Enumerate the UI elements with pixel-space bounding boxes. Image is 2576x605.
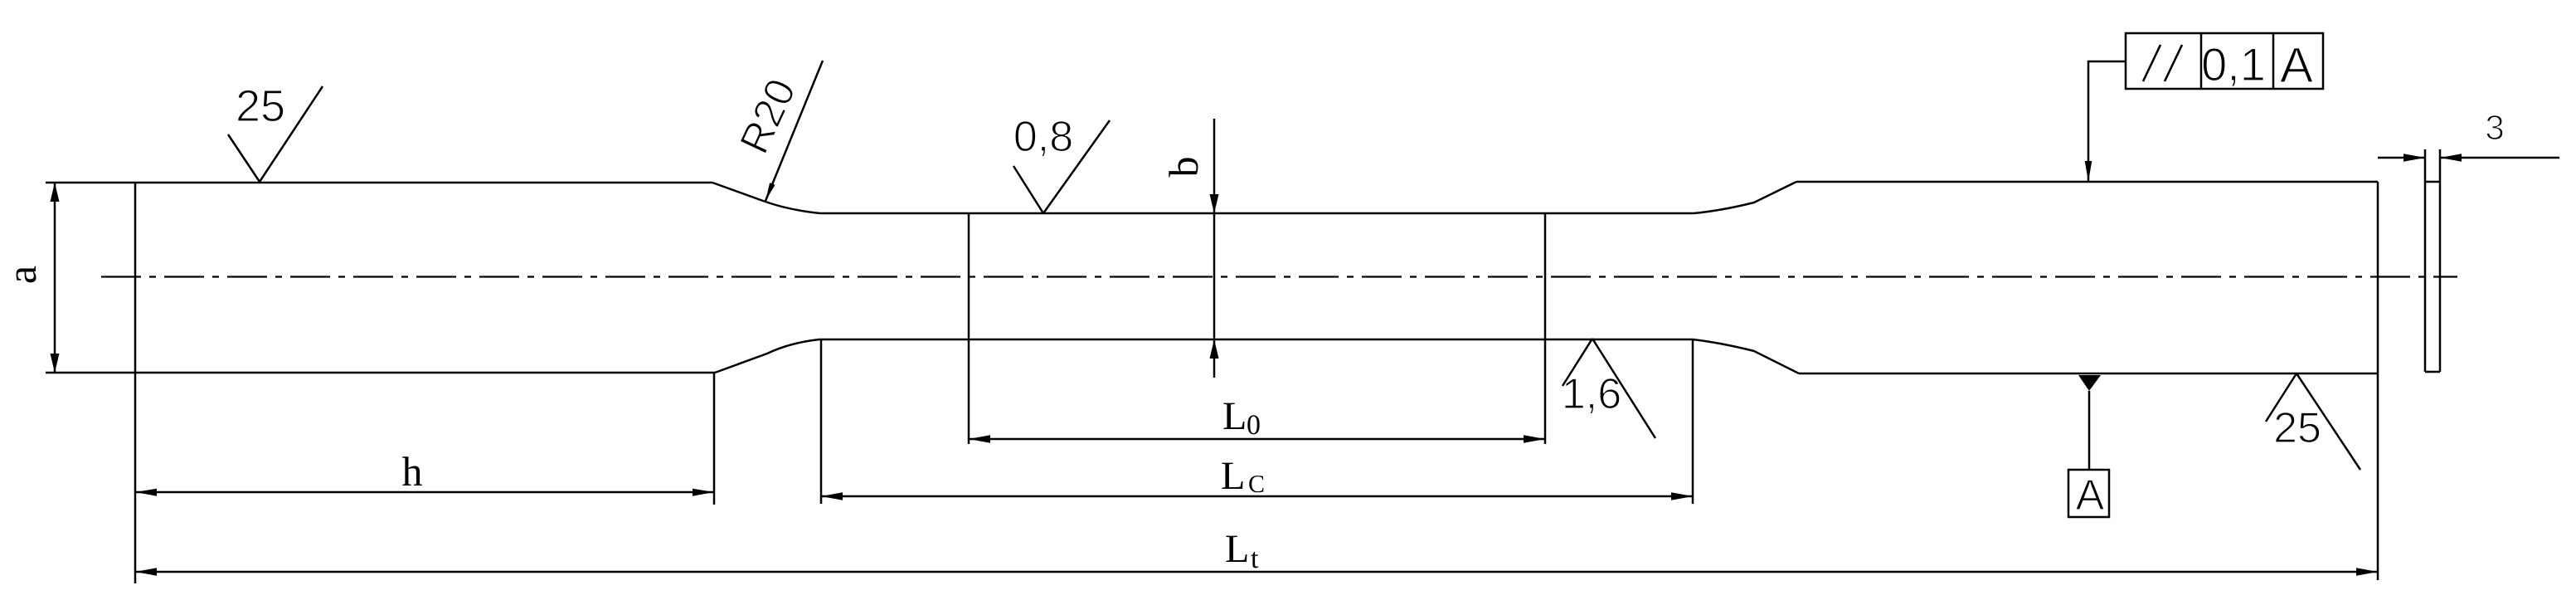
dim b top arrow (1210, 194, 1219, 213)
svg-text:h: h (402, 448, 423, 495)
dim Lc left arrow (821, 492, 843, 500)
datum A box (2068, 470, 2109, 517)
top-left fillet (712, 183, 820, 213)
surface finish symbol 1,6 (inverted) (1563, 339, 1655, 438)
dim a bottom arrow (51, 354, 60, 373)
end view bar right line (2439, 149, 2442, 372)
specimen bottom edge left grip (with extension for dim a) (46, 372, 715, 374)
dim h left arrow (135, 489, 157, 496)
datum A leader line (2088, 391, 2091, 470)
feature control frame box (2126, 33, 2323, 89)
dim Lc right extension line (1692, 339, 1694, 504)
svg-text:0: 0 (1247, 410, 1261, 441)
narrow section top edge (820, 212, 1694, 215)
svg-text:L: L (1222, 394, 1247, 438)
dim 3 left line (2378, 157, 2425, 159)
svg-text:25: 25 (236, 81, 285, 131)
dim Lt line (135, 571, 2378, 573)
R20 leader arrow (766, 183, 775, 201)
specimen left edge (extended down for dims h and Lt) (134, 183, 137, 583)
R20 leader line (766, 61, 823, 201)
feature control frame divider 1 (2200, 33, 2203, 89)
dim L0 line (969, 438, 1545, 441)
dim a top arrow (51, 183, 60, 202)
dim L0 right arrow (1524, 435, 1545, 443)
svg-text:A: A (2280, 37, 2313, 93)
end view bar top edge (2425, 181, 2440, 183)
dim L0 left arrow (969, 435, 990, 443)
bottom-right fillet (1693, 339, 1799, 373)
end view bar left line (2424, 149, 2427, 372)
dim Lc line (821, 495, 1693, 498)
svg-text:A: A (2076, 471, 2105, 520)
surface finish symbol 0,8 (1013, 120, 1110, 213)
dim 3 left arrow (2403, 154, 2425, 162)
specimen top edge right grip (1796, 181, 2378, 183)
dim L0 left gauge line (968, 213, 970, 444)
surface finish symbol 25 bottom-right (inverted) (2266, 373, 2360, 470)
dim h right arrow (693, 489, 714, 496)
dim Lt left arrow (135, 568, 157, 576)
svg-text:a: a (0, 266, 45, 284)
dim a line (54, 183, 56, 373)
FCF leader line (2088, 61, 2126, 182)
dim Lc right arrow (1671, 492, 1693, 500)
svg-text:25: 25 (2273, 404, 2321, 452)
feature control frame divider 2 (2272, 33, 2275, 89)
svg-text:b: b (1160, 157, 1207, 178)
end view bar bottom edge (2425, 371, 2440, 373)
FCF leader arrow (2085, 161, 2092, 182)
datum A triangle (2078, 375, 2101, 391)
surface finish symbol 25 top-left (228, 86, 323, 182)
dim 3 right line (2440, 157, 2559, 159)
dim b bottom arrow (1210, 339, 1219, 359)
svg-text:0,8: 0,8 (1013, 113, 1073, 161)
dim L0 right gauge line (1544, 213, 1547, 444)
dim b line (1213, 119, 1216, 378)
svg-text:3: 3 (2485, 108, 2504, 147)
svg-text:0,1: 0,1 (2201, 38, 2266, 90)
specimen bottom edge right grip (1799, 373, 2378, 375)
narrow section bottom edge (819, 339, 1693, 341)
dim h line (135, 491, 714, 494)
top-right fillet (1694, 182, 1796, 213)
svg-text:C: C (1248, 471, 1265, 498)
svg-text:t: t (1251, 544, 1259, 574)
parallelism symbol (2143, 45, 2182, 81)
svg-text:1,6: 1,6 (1562, 370, 1621, 418)
dim Lc left extension line (820, 339, 823, 504)
svg-text:L: L (1225, 527, 1249, 571)
dim h right extension line (713, 373, 716, 505)
specimen right edge (extended down for dim Lt) (2377, 182, 2379, 580)
svg-text:L: L (1221, 454, 1245, 498)
dim Lt right arrow (2356, 568, 2378, 576)
centerline (101, 276, 2457, 277)
bottom-left fillet (715, 339, 819, 373)
dim 3 right arrow (2440, 154, 2462, 162)
specimen top edge left grip (with extension for dim a) (46, 182, 712, 184)
